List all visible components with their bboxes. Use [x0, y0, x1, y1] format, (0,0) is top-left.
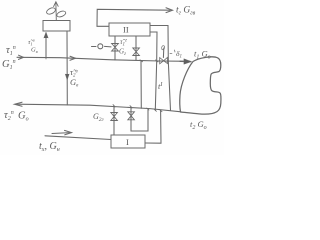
air heater supply pipe with up arrow — [44, 32, 48, 58]
svg-text:I: I — [126, 137, 129, 147]
cold water inlet line — [45, 136, 111, 140]
svg-text:t1 Gо: t1 Gо — [194, 49, 211, 61]
return main arrowhead (left) — [15, 102, 23, 106]
stage I inlet pipe from return main — [113, 106, 115, 135]
dashes before delta label — [170, 50, 175, 54]
svg-text:Gв: Gв — [70, 77, 79, 89]
stage II right outer elbow down — [150, 26, 168, 62]
svg-text:tх, Gн: tх, Gн — [39, 141, 60, 153]
svg-text:G2г: G2г — [93, 112, 105, 123]
heater stage I box — [111, 135, 145, 148]
svg-text:τ2п: τ2п — [4, 110, 14, 122]
DHW arrowhead — [166, 8, 173, 13]
outer elbow continuation below main — [168, 61, 170, 110]
inner elbow continuation below main — [155, 61, 156, 110]
air heater (calorifier) box — [43, 21, 70, 32]
valve on stage II right pipe — [133, 48, 140, 56]
bypass vertical — [140, 61, 142, 108]
building (heating load) blob — [180, 57, 221, 114]
svg-text:τ1п: τ1п — [6, 45, 16, 57]
stage II right inner elbow down — [150, 32, 157, 61]
svg-text:II: II — [123, 25, 129, 35]
return main — [16, 104, 181, 112]
supply main arrowhead left — [19, 55, 24, 59]
stage II right pipe — [135, 36, 137, 60]
svg-text:Gв: Gв — [31, 47, 38, 55]
control valve on stage II left pipe — [112, 44, 119, 52]
fan propeller — [46, 7, 67, 19]
heating regulator valve on supply main — [160, 46, 168, 64]
stage I outlet elbow up — [145, 111, 161, 144]
sensor impulse line (dash-circle-dash) — [92, 44, 112, 49]
svg-text:G1п: G1п — [2, 59, 16, 71]
supply main — [17, 57, 190, 61]
svg-text:t2 Gо: t2 Gо — [190, 119, 207, 131]
heater stage II box — [109, 23, 150, 36]
air heater return pipe with down arrow — [65, 32, 69, 106]
svg-text:tг Gгв: tг Gгв — [176, 6, 196, 17]
DHW outlet line to top arrow — [97, 9, 170, 26]
bypass U with valve — [131, 107, 148, 131]
supply arrow into building — [180, 59, 192, 64]
svg-text:τ̃1г: τ̃1г — [120, 38, 127, 48]
valve on stage I inlet pipe — [111, 113, 118, 121]
cold water arrow — [52, 130, 72, 134]
svg-text:Gг: Gг — [119, 48, 126, 58]
svg-text:τ̃1в: τ̃1в — [28, 38, 35, 47]
svg-text:Gо: Gо — [18, 111, 29, 123]
supply main arrowhead mid — [70, 56, 76, 60]
fan arrow — [54, 2, 59, 21]
svg-text:tI: tI — [158, 81, 163, 91]
valve on bypass — [128, 112, 135, 120]
junction ticks — [46, 56, 162, 112]
stage II left pipe — [114, 36, 116, 60]
svg-text:δ1: δ1 — [176, 49, 182, 60]
